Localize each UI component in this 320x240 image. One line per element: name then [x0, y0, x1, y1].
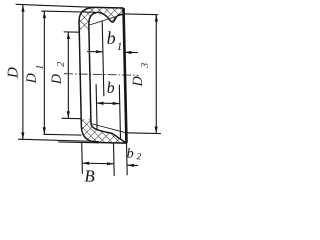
svg-text:D: D [50, 74, 65, 85]
svg-text:D: D [25, 73, 40, 84]
svg-text:D: D [5, 67, 21, 79]
svg-text:b: b [107, 80, 115, 97]
svg-text:D: D [131, 76, 146, 87]
svg-text:2: 2 [136, 152, 141, 162]
svg-text:b: b [106, 28, 115, 48]
svg-text:b: b [126, 147, 133, 162]
svg-text:3: 3 [140, 63, 151, 69]
svg-text:2: 2 [56, 62, 67, 67]
svg-text:1: 1 [117, 41, 123, 53]
svg-text:1: 1 [35, 65, 46, 70]
svg-text:B: B [84, 167, 95, 186]
